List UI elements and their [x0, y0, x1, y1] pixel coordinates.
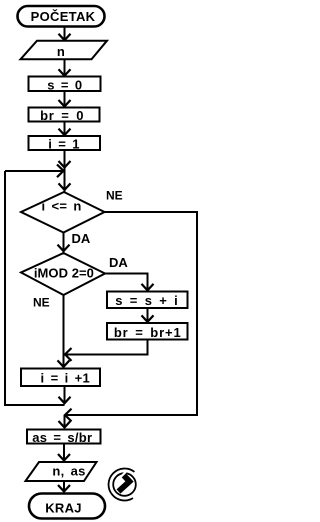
svg-text:DA: DA	[72, 231, 91, 246]
svg-text:br = br+1: br = br+1	[114, 325, 182, 340]
svg-text:as = s/br: as = s/br	[32, 430, 92, 445]
svg-text:DA: DA	[109, 255, 128, 270]
svg-text:iMOD 2=0: iMOD 2=0	[34, 266, 94, 281]
svg-text:KRAJ: KRAJ	[45, 500, 82, 515]
svg-text:n, as: n, as	[52, 464, 85, 479]
svg-text:s = 0: s = 0	[47, 77, 82, 92]
svg-text:i <= n: i <= n	[42, 199, 82, 214]
svg-text:s = s + i: s = s + i	[115, 293, 178, 308]
svg-text:POČETAK: POČETAK	[31, 9, 96, 24]
svg-text:NE: NE	[33, 296, 50, 310]
svg-text:n: n	[57, 44, 65, 59]
svg-text:br = 0: br = 0	[40, 108, 84, 123]
svg-text:i = 1: i = 1	[48, 137, 80, 152]
svg-text:i = i +1: i = i +1	[41, 371, 90, 386]
svg-text:NE: NE	[106, 189, 123, 203]
